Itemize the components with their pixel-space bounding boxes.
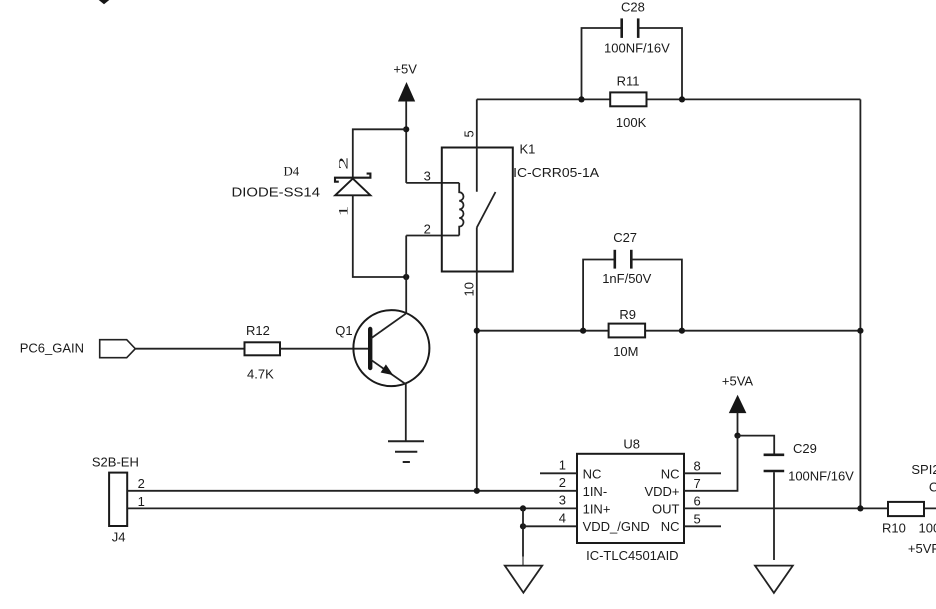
+5V power symbol (393, 62, 417, 130)
svg-text:Q1: Q1 (335, 323, 352, 338)
node C27 left (580, 328, 586, 334)
pin 5 contact wire (476, 99, 478, 191)
wire R9 net (477, 330, 861, 332)
svg-text:6: 6 (694, 494, 701, 509)
wire R11 net (relay pin5 to right bus) (477, 98, 861, 100)
emitter arrow (381, 364, 394, 375)
node: D4 anode / collector junction (403, 274, 409, 280)
wire relay pin 10 down to U8 pin 2 net (476, 228, 478, 491)
pin 8 stub (684, 472, 721, 474)
node C28 right (679, 96, 685, 102)
svg-text:SPI2_: SPI2_ (911, 462, 936, 477)
connector J4 (92, 455, 145, 545)
svg-text:C28: C28 (621, 0, 645, 15)
wire +5VA node to C29 (738, 436, 775, 454)
pin 5 stub (684, 525, 721, 527)
anode triangle (335, 179, 370, 196)
node 1IN+ / ground branch (520, 505, 526, 511)
left lead (582, 28, 622, 99)
right lead (638, 28, 682, 99)
svg-text:VDD+: VDD+ (644, 484, 679, 499)
collector line (371, 314, 406, 339)
svg-text:10: 10 (462, 282, 477, 296)
node relay pin10 / R9 net (474, 328, 480, 334)
resistor R10 (882, 502, 936, 535)
plates (620, 18, 623, 38)
op-amp U8 (540, 437, 721, 563)
+5VA power symbol (722, 373, 754, 435)
cathode bar with schottky hooks (335, 174, 370, 182)
node C28 left (578, 96, 584, 102)
svg-text:5: 5 (462, 130, 477, 137)
resistor R9 (609, 307, 646, 359)
svg-text:IC-TLC4501AID: IC-TLC4501AID (586, 548, 678, 563)
resistor R12 (245, 323, 281, 381)
svg-text:10M: 10M (613, 344, 638, 359)
svg-text:K1: K1 (520, 142, 536, 157)
capacitor C29 (764, 441, 855, 483)
svg-text:3: 3 (559, 493, 566, 508)
svg-text:D4: D4 (284, 164, 300, 179)
svg-text:DIODE-SS14: DIODE-SS14 (232, 185, 321, 200)
wire U8 pin4 (523, 525, 577, 527)
svg-text:+5V: +5V (393, 62, 417, 77)
wire R12 to Q1 base (280, 348, 370, 350)
wire relay pin2 to Q1 collector (406, 235, 459, 237)
svg-text:1IN+: 1IN+ (583, 501, 611, 516)
svg-text:+5VA: +5VA (722, 373, 754, 388)
node R9 net / right bus (857, 328, 863, 334)
svg-text:2: 2 (559, 475, 566, 490)
svg-text:1: 1 (559, 458, 566, 473)
svg-text:100NF/16V: 100NF/16V (604, 40, 670, 55)
svg-text:1IN-: 1IN- (583, 484, 608, 499)
svg-text:R9: R9 (619, 307, 636, 322)
svg-text:IC-CRR05-1A: IC-CRR05-1A (513, 165, 599, 180)
base bar (368, 329, 372, 368)
ground under C29 (755, 566, 793, 593)
emitter line (371, 360, 406, 385)
svg-text:C30: C30 (929, 480, 936, 495)
capacitor C28 (582, 0, 683, 99)
wire J4 pin2 to U8 1IN- (127, 490, 577, 492)
svg-text:NC: NC (661, 466, 680, 481)
resistor R11 (610, 73, 646, 129)
svg-text:C29: C29 (793, 441, 817, 456)
left lead (583, 260, 615, 331)
wire D4 top branch (353, 129, 406, 177)
power symbol tip (clipped at top edge) (98, 0, 111, 4)
svg-text:1nF/50V: 1nF/50V (602, 271, 651, 286)
svg-text:8: 8 (694, 458, 701, 473)
svg-text:R12: R12 (246, 323, 270, 338)
svg-text:NC: NC (583, 466, 602, 481)
svg-text:5: 5 (694, 512, 701, 527)
wire +5V to relay pin 3 (405, 129, 407, 183)
node C27 right (679, 328, 685, 334)
capacitor C27 (583, 230, 682, 331)
svg-text:100NF/16V: 100NF/16V (788, 469, 854, 484)
svg-text:R11: R11 (617, 73, 640, 88)
svg-text:1: 1 (335, 206, 350, 217)
svg-text:VDD_/GND: VDD_/GND (583, 519, 650, 534)
node relay wire / 1IN- (474, 488, 480, 494)
wire J4 pin1 to U8 1IN+ (127, 507, 577, 509)
svg-text:PC6_GAIN: PC6_GAIN (20, 340, 84, 355)
net flag PC6_GAIN (20, 340, 136, 358)
wire ground branch (522, 508, 524, 556)
relay body (442, 148, 513, 272)
diode D4 (232, 157, 371, 216)
svg-text:U8: U8 (623, 437, 640, 452)
svg-text:100K: 100K (919, 520, 936, 535)
svg-text:7: 7 (694, 476, 701, 491)
relay K1 (424, 99, 600, 296)
svg-text:R10: R10 (882, 520, 906, 535)
wire D4 bottom branch (353, 195, 406, 277)
svg-text:3: 3 (424, 168, 431, 183)
pin 1 stub (540, 472, 577, 474)
svg-text:2: 2 (424, 221, 431, 236)
svg-text:1: 1 (138, 494, 145, 509)
plates (613, 250, 616, 269)
node +5VA / C29 / U8 VDD+ (734, 433, 740, 439)
wire U8 OUT net (684, 507, 936, 509)
svg-text:2: 2 (335, 157, 350, 170)
wire C29 to ground (773, 472, 775, 560)
wire Q1 emitter to ground (405, 384, 407, 441)
transistor Q1 (335, 310, 429, 386)
node: +5V / D4 cathode junction (403, 126, 409, 132)
right vertical bus wire (859, 99, 861, 508)
svg-text:+5VREF: +5VREF (908, 541, 936, 556)
svg-text:100K: 100K (616, 115, 647, 130)
svg-text:2: 2 (138, 476, 145, 491)
coil (459, 183, 463, 236)
svg-text:4.7K: 4.7K (247, 366, 274, 381)
svg-text:J4: J4 (112, 530, 126, 545)
earth ground under Q1 (388, 441, 424, 462)
svg-text:C27: C27 (613, 230, 637, 245)
node OUT / right bus (857, 505, 863, 511)
svg-text:S2B-EH: S2B-EH (92, 455, 139, 470)
ground under U8 (505, 566, 542, 593)
svg-text:NC: NC (661, 519, 680, 534)
wire U8 pin7 to +5VA node (684, 436, 738, 491)
svg-text:4: 4 (559, 511, 566, 526)
switch blade (477, 192, 496, 228)
node VDD_/GND / ground branch (520, 523, 526, 529)
wire flag to R12 (135, 348, 244, 350)
svg-text:OUT: OUT (652, 501, 680, 516)
right lead (631, 260, 682, 331)
